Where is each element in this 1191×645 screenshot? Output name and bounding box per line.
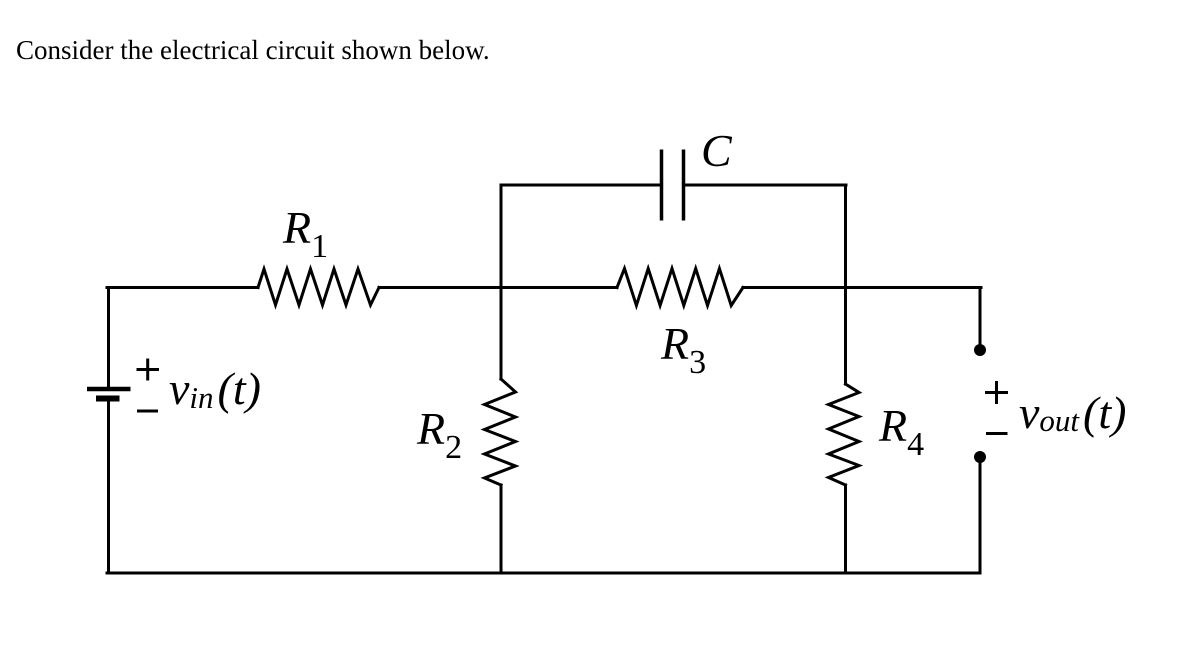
wire: middle vertical, top wire to R2	[500, 185, 503, 379]
svg-text:vin(t): vin(t)	[169, 363, 261, 415]
polarity plus of vout	[985, 381, 1008, 404]
polarity minus of vin	[137, 410, 158, 413]
wire: main horizontal, source to R1	[107, 286, 258, 289]
svg-text:R4: R4	[878, 400, 924, 463]
svg-text:C: C	[701, 125, 733, 176]
wire: output vertical upper	[979, 288, 982, 349]
wire: left vertical above battery	[107, 288, 110, 387]
svg-text:R2: R2	[416, 403, 462, 466]
svg-text:R3: R3	[660, 318, 706, 381]
wire: top capacitor branch right	[685, 184, 846, 187]
wire: bottom horizontal	[107, 572, 980, 575]
capacitor C right plate	[682, 150, 686, 221]
wire: main horizontal, R3 to output node	[743, 286, 981, 289]
svg-text:vout(t): vout(t)	[1019, 387, 1126, 438]
resistor R4	[829, 384, 860, 485]
wire: middle vertical, R2 to bottom	[500, 485, 503, 573]
wire: right-mid vertical, top wire to R4	[844, 185, 847, 384]
svg-text:Consider the electrical circui: Consider the electrical circuit shown be…	[16, 35, 490, 65]
wire: main horizontal, R1 to R3	[379, 286, 617, 289]
svg-text:R1: R1	[282, 202, 328, 265]
battery source plate short	[96, 396, 120, 402]
polarity minus of vout	[986, 432, 1008, 435]
polarity plus of vin	[137, 359, 160, 381]
node: output terminal lower dot	[974, 451, 986, 463]
resistor R1	[258, 269, 379, 305]
resistor R3	[617, 269, 743, 306]
node: output terminal upper dot	[974, 344, 986, 356]
resistor R2	[485, 379, 516, 485]
wire: top capacitor branch left	[501, 184, 660, 187]
battery source plate long	[87, 387, 131, 392]
capacitor C left plate	[660, 150, 664, 221]
wire: left vertical below battery	[107, 402, 110, 574]
wire: right-mid vertical, R4 to bottom	[844, 485, 847, 573]
wire: output vertical lower	[979, 459, 982, 573]
